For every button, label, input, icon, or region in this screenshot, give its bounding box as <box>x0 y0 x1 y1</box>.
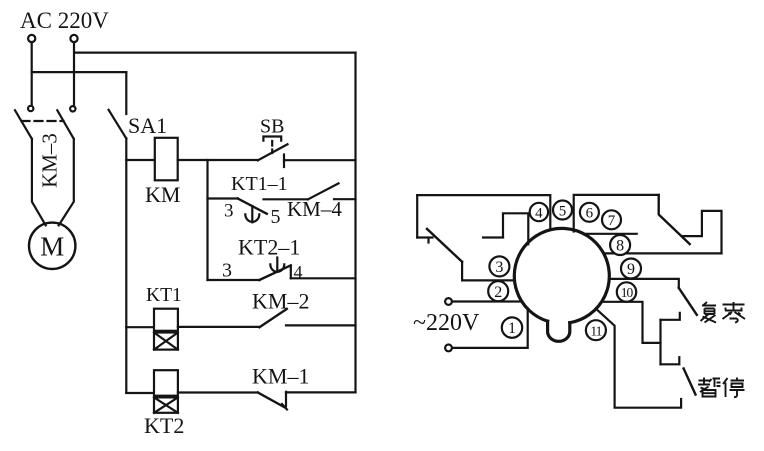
switch zanting blade <box>684 369 696 395</box>
wire KM rung left <box>126 159 155 161</box>
svg-text:9: 9 <box>627 261 635 278</box>
svg-text:5: 5 <box>559 203 567 219</box>
wire blade to pin2 <box>462 262 514 281</box>
svg-text:1: 1 <box>508 320 516 337</box>
wire KT2 rung left <box>126 392 154 394</box>
wire pin7 stub <box>584 233 637 235</box>
contact KT2-1 <box>208 258 291 281</box>
wire SB to right bus <box>284 159 356 161</box>
pin 9 <box>621 259 641 279</box>
switch left fixed B <box>483 236 503 238</box>
wire KM-4 to right bus <box>334 198 356 200</box>
terminal T1 <box>445 298 452 305</box>
wire KT2-1 to right bus <box>291 277 356 279</box>
pin 10 <box>617 282 636 301</box>
wire KM-1 to right bus <box>286 391 356 393</box>
terminal L1 <box>28 35 35 42</box>
svg-text:10: 10 <box>621 285 634 300</box>
svg-text:3: 3 <box>224 201 234 222</box>
contact KM-3 <box>15 106 76 139</box>
svg-text:KT1: KT1 <box>146 285 182 306</box>
wire T2 to pin1 <box>452 309 528 348</box>
contact KM-4 <box>308 183 338 199</box>
motor M <box>29 223 75 269</box>
svg-text:KT2: KT2 <box>144 413 184 438</box>
wire motor leads <box>32 139 46 225</box>
switch SA1 <box>125 72 127 114</box>
coil KT1 box <box>154 333 178 350</box>
wire second rail <box>32 71 127 73</box>
wire KT1 to KM-2 <box>178 326 260 328</box>
label fuling (reset) <box>701 302 746 323</box>
terminal T2 <box>445 345 452 352</box>
pushbutton SB <box>258 137 288 168</box>
wire pin4 <box>503 213 528 244</box>
switch left fixed A <box>417 195 432 242</box>
coil KM <box>155 138 178 181</box>
wire KM rung right <box>178 159 258 161</box>
svg-text:SB: SB <box>260 116 284 138</box>
svg-text:11: 11 <box>590 323 601 338</box>
pin 3 <box>489 256 509 276</box>
svg-text:KT2–1: KT2–1 <box>238 235 300 260</box>
switch zanting fixed <box>661 357 680 364</box>
wire pin11 <box>598 310 681 407</box>
svg-text:AC 220V: AC 220V <box>20 8 109 33</box>
wire branch bus <box>206 160 208 280</box>
wire L2 down <box>73 42 75 106</box>
svg-text:7: 7 <box>608 213 616 229</box>
pin 8 <box>610 235 630 255</box>
pin 11 <box>586 320 606 340</box>
svg-text:KM–1: KM–1 <box>252 364 309 389</box>
pin 5 <box>553 201 572 220</box>
wire KM-2 to right bus <box>286 324 356 326</box>
wire pin6 rail <box>574 195 659 232</box>
wire pin10 <box>602 302 660 343</box>
svg-text:2: 2 <box>494 284 502 301</box>
coil KT1 <box>154 309 178 331</box>
svg-text:~220V: ~220V <box>413 310 480 336</box>
pin 2 <box>488 281 508 301</box>
coil KT2 box <box>154 397 178 412</box>
terminal L2 <box>70 35 77 42</box>
wire KT1-1 to KM-4 <box>264 198 309 200</box>
wire left bus <box>125 139 127 393</box>
wire right bus <box>354 53 356 393</box>
coil KT2 <box>154 370 178 396</box>
svg-text:SA1: SA1 <box>128 113 167 138</box>
wire KT1 rung left <box>126 326 154 328</box>
svg-text:3: 3 <box>495 259 503 276</box>
pin 7 <box>602 210 621 229</box>
switch fuling blade <box>679 288 697 315</box>
contact KT1-1 <box>208 199 267 223</box>
svg-text:M: M <box>40 232 64 262</box>
contact KM-2 <box>260 309 287 327</box>
svg-text:3: 3 <box>222 260 232 282</box>
svg-text:KM–4: KM–4 <box>287 197 342 221</box>
wire L1 down <box>31 42 33 105</box>
label zanting (pause) <box>698 378 745 398</box>
wire pin8 <box>604 252 721 254</box>
svg-text:4: 4 <box>535 205 543 221</box>
switch right blade <box>659 195 690 244</box>
pin 6 <box>580 203 599 222</box>
timer dial body <box>514 228 609 322</box>
pin 4 <box>530 203 548 222</box>
svg-text:KM: KM <box>145 182 180 207</box>
timer dial key notch <box>548 321 570 341</box>
svg-text:KM–3: KM–3 <box>38 133 62 188</box>
svg-text:8: 8 <box>616 238 624 255</box>
switch left blade <box>427 229 462 262</box>
wire KT2 to KM-1 <box>178 391 258 393</box>
svg-text:KM–2: KM–2 <box>252 289 309 314</box>
contact KM-1 <box>258 392 287 410</box>
switch right fixed <box>683 211 721 254</box>
wire top rail <box>75 51 356 53</box>
wire fuling to zanting <box>659 320 661 365</box>
wire pin5 rail <box>417 195 550 229</box>
wire pin9 <box>610 279 679 288</box>
svg-text:5: 5 <box>271 206 281 228</box>
svg-text:6: 6 <box>586 206 594 222</box>
switch fuling fixed <box>661 313 680 320</box>
pin 1 <box>502 317 522 337</box>
svg-text:KT1–1: KT1–1 <box>231 173 288 195</box>
wire T1 to pin2 <box>452 300 522 302</box>
